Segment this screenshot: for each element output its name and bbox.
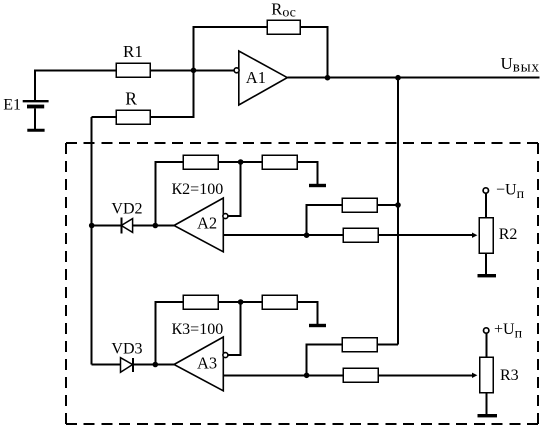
node VD2 / feedback [153,223,159,229]
ground R3 [478,414,498,417]
svg-text:Rос: Rос [271,0,296,21]
resistor A2 to ground [262,155,297,169]
node VD3 / feedback [153,362,159,368]
wire R2 top to terminal [485,193,487,218]
node A3 output [304,373,310,379]
resistor R1 [116,63,150,77]
wire R right up to junction [150,70,194,117]
svg-text:R2: R2 [499,226,518,243]
wire A2 circle input to divider [228,162,241,216]
resistor R [116,110,150,124]
wire main rail from output [397,78,399,345]
wire A3 output [223,374,343,376]
svg-text:R3: R3 [500,367,519,384]
svg-text:E1: E1 [3,96,21,113]
wire R2 bottom to ground [485,253,487,274]
wire between A2 top resistors [218,161,262,163]
node output/rail [395,75,401,81]
svg-text:VD3: VD3 [111,340,142,357]
resistor A2 lower out [343,228,378,242]
op-amp A2 [174,198,228,252]
wire VD2 to A2 [133,225,174,227]
resistor A2 upper out [342,198,377,212]
resistor A3 feedback [183,295,218,309]
svg-text:К3=100: К3=100 [172,321,224,338]
node A3 divider [238,299,244,305]
svg-text:−Uп: −Uп [496,182,525,202]
wire A2 feedback left [155,162,183,226]
wire E1 to R1 [35,71,116,102]
ground A2 [309,184,326,187]
arrow R2 wiper [472,233,477,238]
wire R3 top to terminal [485,333,487,357]
potentiometer R2 [479,218,493,254]
dashed block boundary [66,143,538,424]
wire between A3 top resistors [218,301,262,303]
arrow R3 wiper [472,373,477,378]
svg-text:A1: A1 [246,68,266,87]
wire A2 output [223,234,343,236]
wire A2 upper resistor to rail [377,204,398,206]
svg-text:A2: A2 [197,214,217,233]
node junction R1/A1/feedback [191,68,197,74]
wire A2 resistor to ground [297,162,317,184]
svg-text:A3: A3 [197,354,217,373]
op-amp A1 [234,51,287,105]
wire rail to VD2 [92,225,122,227]
wire A2 output up to upper resistor [307,205,342,235]
svg-text:R: R [125,89,137,109]
node main rail / A2 tap [395,202,401,208]
node feedback/output [325,75,331,81]
diode VD3 [121,358,134,373]
resistor A3 to ground [262,295,297,309]
op-amp A3 [174,337,228,391]
wire A3 circle input to divider [228,302,241,355]
wire A3 resistor to ground [297,302,317,324]
wire R1 to A1 input [150,69,234,71]
terminal -Up [483,188,488,193]
svg-text:R1: R1 [123,42,143,61]
wire R3 bottom to ground [485,393,487,414]
ground A3 [309,324,326,327]
resistor Roc [267,20,300,34]
resistor A3 upper out [342,338,377,352]
node A2 output [304,232,310,238]
resistor A3 lower out [343,368,378,382]
battery E1 [23,101,49,130]
wire A3 upper resistor to rail [377,344,398,346]
node left rail / VD2 [89,223,95,229]
diode VD2 [121,218,132,234]
potentiometer R3 [480,357,494,393]
ground R2 [478,274,497,277]
wire feedback up to Roc [194,27,268,70]
wire A3 to R3 wiper [378,374,473,376]
wire R left to left rail [92,116,116,118]
svg-text:+Uп: +Uп [494,321,523,342]
terminal +Up [484,328,489,333]
wire A2 to R2 wiper [378,234,473,236]
svg-text:Uвых: Uвых [501,54,540,76]
wire A1 output line [287,77,539,79]
wire rail to VD3 [92,364,121,366]
wire left rail [91,117,93,365]
wire Roc to A1 output [300,27,328,78]
wire VD3 to A3 [133,364,174,366]
node A2 divider [238,159,244,165]
svg-text:VD2: VD2 [111,200,142,217]
wire A3 output up to upper resistor [307,345,342,376]
svg-text:К2=100: К2=100 [172,181,224,198]
resistor A2 feedback [183,155,218,169]
wire A3 feedback left [155,302,183,365]
